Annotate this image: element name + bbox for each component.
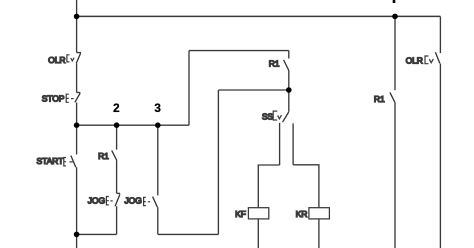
wire: riser seal branch <box>217 90 219 234</box>
label wire number 1 (cut off at top) <box>393 0 396 3</box>
wire: right seal rail bottom <box>394 102 396 248</box>
node: top left junction <box>74 14 80 20</box>
STOP pushbutton actuator E <box>66 94 69 102</box>
svg-text:STOP: STOP <box>42 93 65 103</box>
wire: branch 3 drop from bus <box>157 125 159 195</box>
contact OLR blade <box>76 53 80 63</box>
wire: branch 2 mid <box>116 160 118 193</box>
svg-text:JOG: JOG <box>88 196 106 206</box>
svg-text:3: 3 <box>154 101 161 115</box>
wire: upper branch horizontal <box>189 50 289 52</box>
wire: return bus right (JOG NO to riser) <box>158 233 219 235</box>
wire: left rail OLR to STOP <box>76 63 78 92</box>
wire: left rail STOP to START (through node) <box>76 103 78 155</box>
wire: top bus L1 <box>77 15 441 17</box>
OLR release arrow v <box>71 58 74 61</box>
wire: far right rail bottom <box>439 64 441 248</box>
START actuator dash <box>69 161 72 163</box>
START pushbutton actuator E <box>64 158 66 166</box>
wire: far right rail top <box>439 16 441 53</box>
JOG NC actuator E <box>106 197 108 205</box>
contact STOP blade <box>75 93 80 102</box>
wire: R1 branch top drop <box>288 51 290 59</box>
contact OLR (NC, left rail): tick <box>77 52 82 54</box>
wire: SS right throw <box>292 123 294 164</box>
svg-text:R1: R1 <box>98 151 109 161</box>
svg-text:START: START <box>37 156 65 166</box>
svg-text:OLR: OLR <box>48 55 65 65</box>
wire: center drop to node <box>288 71 290 112</box>
node: bus-rail junction <box>74 122 80 128</box>
wire: step to KR <box>293 165 319 208</box>
svg-text:KF: KF <box>235 209 246 219</box>
SS arrow v <box>278 115 282 119</box>
wire: branch 2 drop from bus <box>116 125 118 149</box>
svg-text:OLR: OLR <box>406 55 423 65</box>
wire: left rail START to bottom edge <box>76 167 78 248</box>
wire: left rail top drop <box>76 0 78 53</box>
svg-text:KR: KR <box>296 209 308 219</box>
OLR right release bracket <box>425 56 429 64</box>
node 2 junction <box>114 122 120 128</box>
node 3 junction <box>155 122 161 128</box>
SS bracket <box>273 111 277 120</box>
node: SS common junction <box>286 87 292 93</box>
contact R1 (NO, branch 2) blade <box>112 150 117 160</box>
contact R1 (NO, right) blade <box>390 92 395 102</box>
JOG NO actuator E <box>144 197 146 205</box>
wire: step to KF <box>258 165 279 208</box>
svg-text:R1: R1 <box>374 94 385 104</box>
OLR release bracket <box>67 55 70 62</box>
svg-text:2: 2 <box>113 101 120 115</box>
selector switch SS blade <box>283 112 289 122</box>
svg-text:R1: R1 <box>269 58 280 68</box>
wire: bus row 2 <box>77 124 189 126</box>
JOG NC actuator dash <box>110 200 112 202</box>
contact STOP (NC pushbutton): tick <box>77 92 81 94</box>
wire: riser to upper branch <box>188 51 190 126</box>
coil KF <box>248 208 268 219</box>
wire: right seal rail drop <box>394 16 396 90</box>
wire: branch 2 bottom <box>116 206 118 234</box>
contact JOG (NC pushbutton, branch 2): tick <box>117 192 121 194</box>
node: bottom rail junction <box>74 232 80 238</box>
contact JOG (NO pushbutton, branch 3) blade <box>153 197 158 208</box>
contact START (NO pushbutton) blade <box>71 156 76 168</box>
wire: return bus left (JOG NC to rail) <box>77 233 117 235</box>
OLR right release arrow v <box>429 59 433 63</box>
node: top right junction <box>392 14 398 20</box>
svg-text:JOG: JOG <box>124 196 142 206</box>
svg-text:SS: SS <box>262 111 274 121</box>
wire: branch 3 bottom <box>157 207 159 234</box>
wire: horizontal into node SS <box>218 89 288 91</box>
contact OLR (NO, far right) blade <box>435 52 439 63</box>
contact JOG NC blade <box>115 194 120 206</box>
STOP actuator dash <box>71 98 74 100</box>
wire: SS left throw <box>279 123 281 165</box>
JOG NO actuator dash <box>148 201 150 203</box>
wire: KR to bottom edge <box>318 219 320 248</box>
contact R1 (NO, center) blade <box>284 60 289 71</box>
coil KR <box>309 208 330 219</box>
wire: KF to bottom edge <box>257 219 259 248</box>
